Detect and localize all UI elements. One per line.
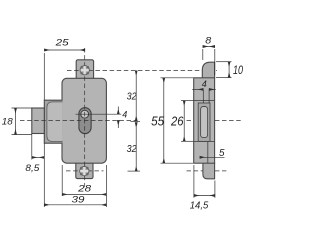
centerline bottom screw left bbox=[66, 170, 104, 172]
svg-text:32: 32 bbox=[127, 91, 137, 102]
svg-text:55: 55 bbox=[151, 115, 164, 129]
front view: lock case plate bbox=[62, 78, 106, 163]
dim 8,5 bbox=[25, 134, 44, 174]
dim 55 bbox=[151, 78, 193, 163]
dim 5 leader bbox=[200, 148, 225, 159]
svg-text:14,5: 14,5 bbox=[190, 199, 209, 211]
svg-text:32: 32 bbox=[127, 144, 137, 155]
dim 10 bbox=[216, 62, 243, 78]
svg-text:8,5: 8,5 bbox=[25, 163, 40, 174]
svg-text:25: 25 bbox=[54, 37, 69, 48]
svg-text:5: 5 bbox=[219, 148, 225, 159]
screw top bbox=[80, 66, 89, 75]
dim 39 bbox=[44, 143, 106, 207]
svg-text:8: 8 bbox=[205, 36, 212, 47]
svg-text:28: 28 bbox=[77, 184, 92, 195]
side view: latch slot window bbox=[201, 107, 208, 138]
svg-text:10: 10 bbox=[233, 63, 243, 77]
dim 8 bbox=[203, 36, 215, 75]
dim 25 bbox=[44, 37, 85, 100]
centerline main axis left bbox=[20, 119, 136, 121]
svg-text:4: 4 bbox=[122, 110, 127, 121]
front view: bottom mounting tab bbox=[76, 162, 93, 179]
side view: bottom tab bbox=[203, 163, 215, 179]
dim 18 bbox=[2, 108, 32, 135]
side view: collar edge lines bbox=[194, 101, 215, 164]
dim 4 keyhole offset bbox=[76, 107, 128, 129]
dim 28 bbox=[62, 165, 106, 207]
side view: body bar bbox=[194, 78, 215, 163]
front view: cylinder front boss bbox=[32, 108, 45, 134]
centerline top screw horizontal bbox=[67, 70, 217, 72]
centerline vertical through screws bbox=[84, 48, 86, 187]
svg-text:26: 26 bbox=[170, 115, 183, 129]
front view: key pin circle bbox=[81, 110, 89, 118]
centerline bottom screw right bbox=[187, 170, 227, 172]
dim 26 bbox=[170, 101, 194, 142]
dim 14,5 bbox=[190, 165, 215, 211]
side view: bent hook tab top bbox=[202, 62, 214, 78]
centerline main axis right bbox=[187, 119, 242, 121]
front view: top mounting tab bbox=[76, 60, 93, 80]
screw bottom bbox=[80, 167, 89, 176]
svg-text:18: 18 bbox=[2, 117, 14, 128]
svg-text:39: 39 bbox=[72, 195, 86, 206]
front view: keyhole escutcheon bbox=[79, 108, 91, 134]
dim chain 32 4 32 bbox=[127, 71, 140, 172]
dim 4 side plate bbox=[192, 79, 216, 103]
front view: cylinder collar flange bbox=[44, 100, 62, 143]
svg-text:4: 4 bbox=[202, 79, 207, 90]
